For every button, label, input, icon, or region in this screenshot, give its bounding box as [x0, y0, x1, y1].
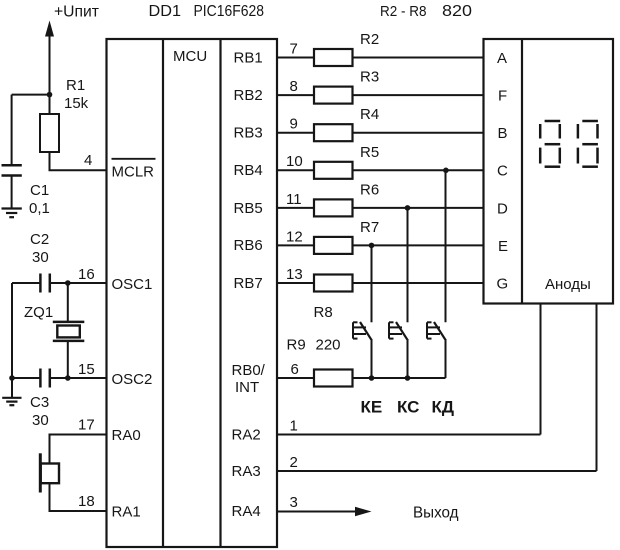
svg-text:6: 6: [291, 361, 299, 378]
wire: left rail C3 end: [12, 377, 40, 379]
svg-text:RA0: RA0: [112, 427, 141, 444]
resistor R8: [314, 275, 353, 292]
wire: C1 to ground: [11, 176, 13, 209]
capacitor C2: [40, 274, 49, 293]
wire pin10 stub: [277, 169, 314, 171]
ground under C1: [2, 209, 22, 218]
svg-text:9: 9: [290, 116, 298, 133]
node junction rail SB1: [369, 375, 375, 381]
svg-text:RB2: RB2: [234, 87, 263, 104]
capacitor C1: [2, 165, 22, 175]
wire: C2 to OSC1 pin: [50, 282, 106, 284]
svg-text:C3: C3: [30, 394, 49, 411]
wire R6 to display D: [353, 207, 484, 209]
wire: left rail C2 end: [12, 282, 40, 284]
svg-text:8: 8: [290, 78, 298, 95]
wire: left rail down to C1: [11, 95, 13, 166]
svg-text:F: F: [498, 88, 507, 105]
wire pin8 stub: [277, 94, 314, 96]
wire: C3 to OSC2 pin: [50, 377, 106, 379]
wire pin7 stub: [277, 57, 314, 59]
svg-text:R4: R4: [360, 106, 379, 123]
svg-text:RB5: RB5: [234, 200, 263, 217]
wire R8 to display G: [353, 282, 484, 284]
switch KE: [353, 322, 372, 378]
wire R3 to display F: [353, 94, 484, 96]
svg-text:PIC16F628: PIC16F628: [194, 3, 265, 20]
ground under C3 rail: [2, 398, 21, 405]
seven segment digit 1: [540, 121, 560, 167]
svg-text:15k: 15k: [64, 95, 89, 112]
svg-text:C: C: [497, 163, 508, 180]
svg-text:RB0/: RB0/: [232, 362, 266, 379]
wire pin9 stub: [277, 132, 314, 134]
svg-text:R9: R9: [287, 337, 306, 354]
svg-text:RA2: RA2: [232, 427, 261, 444]
node junction D row: [405, 205, 411, 211]
wire E row junction down to switch KE: [371, 245, 373, 322]
wire: left rail between C2 and C3: [11, 283, 13, 378]
svg-text:C2: C2: [30, 231, 49, 248]
wire R9 to switch rail: [353, 377, 446, 379]
crystal ZQ1: [53, 283, 85, 378]
wire pin12 stub: [277, 244, 314, 246]
svg-text:C1: C1: [30, 182, 49, 199]
svg-text:D: D: [497, 200, 508, 217]
pin MCLR label with overline: [112, 159, 156, 181]
node: ground junction: [9, 375, 15, 381]
wire R2 to display A: [353, 57, 484, 59]
wire R4 to display B: [353, 132, 484, 134]
node: crystal bottom junction: [65, 375, 71, 381]
wire pin11 stub: [277, 207, 314, 209]
svg-text:12: 12: [286, 228, 303, 245]
svg-text:RB7: RB7: [234, 275, 263, 292]
wire: junction down to R1: [49, 95, 51, 114]
node: R1 top junction: [47, 92, 53, 98]
svg-text:1: 1: [290, 418, 298, 435]
resistor R1: [40, 114, 59, 152]
svg-text:OSC2: OSC2: [112, 371, 153, 388]
svg-text:R7: R7: [360, 219, 379, 236]
svg-text:Выход: Выход: [413, 505, 459, 522]
switch KC: [389, 322, 408, 378]
wire RA3 to display anode 2: [277, 470, 597, 472]
svg-text:+Uпит: +Uпит: [54, 4, 100, 21]
svg-text:RA3: RA3: [232, 463, 261, 480]
wire RA2 to display anode 1: [277, 434, 541, 436]
node junction C row: [443, 168, 449, 174]
resistor R5: [314, 162, 353, 179]
svg-text:17: 17: [78, 417, 95, 434]
node junction E row: [369, 243, 375, 249]
seven segment digit 2: [578, 121, 598, 167]
svg-text:30: 30: [32, 249, 49, 266]
display internal divider: [521, 39, 523, 304]
node: crystal top junction: [65, 280, 71, 286]
svg-text:16: 16: [78, 266, 95, 283]
resistor R4: [314, 124, 353, 141]
svg-text:R5: R5: [360, 144, 379, 161]
svg-text:7: 7: [290, 41, 298, 58]
svg-text:DD1: DD1: [149, 3, 182, 20]
svg-text:R6: R6: [360, 181, 379, 198]
node junction rail SB2: [405, 375, 411, 381]
display indicator box: [484, 39, 614, 304]
svg-text:RB1: RB1: [234, 50, 263, 67]
wire R5 to display C: [353, 169, 484, 171]
svg-text:ZQ1: ZQ1: [24, 304, 53, 321]
wire R7 to display E: [353, 244, 484, 246]
wire C row junction down to switch KD: [445, 170, 447, 322]
svg-text:КС: КС: [397, 397, 419, 416]
svg-text:30: 30: [32, 412, 49, 429]
piezo sounder: [40, 453, 59, 492]
svg-text:КД: КД: [432, 397, 455, 416]
svg-text:OSC1: OSC1: [112, 276, 153, 293]
svg-text:220: 220: [316, 337, 341, 354]
svg-text:B: B: [498, 125, 508, 142]
svg-text:Аноды: Аноды: [545, 276, 591, 293]
MCU internal divider 2: [219, 39, 221, 547]
svg-text:820: 820: [442, 3, 472, 20]
svg-text:11: 11: [286, 191, 302, 208]
wire: junction to ground G2: [11, 378, 13, 398]
svg-text:MCU: MCU: [173, 48, 207, 65]
svg-text:E: E: [498, 238, 508, 255]
wire display bottom right down: [596, 304, 598, 472]
svg-text:R2 - R8: R2 - R8: [380, 3, 427, 20]
svg-text:MCLR: MCLR: [112, 164, 155, 181]
resistor R7: [314, 237, 353, 254]
resistor R3: [314, 87, 353, 104]
svg-text:R1: R1: [66, 77, 85, 94]
svg-text:A: A: [497, 50, 507, 67]
svg-text:18: 18: [78, 493, 95, 510]
wire pin6 stub: [277, 377, 314, 379]
svg-text:3: 3: [290, 494, 298, 511]
svg-text:INT: INT: [235, 379, 259, 396]
wire D row junction down to switch KC: [407, 208, 409, 322]
resistor R9: [314, 370, 353, 387]
wire display bottom left down: [540, 304, 542, 435]
svg-text:RB6: RB6: [234, 237, 263, 254]
svg-text:RB3: RB3: [234, 125, 263, 142]
wire RA0 to piezo: [50, 435, 107, 464]
svg-text:4: 4: [84, 152, 92, 169]
wire RA4 output with arrow: [277, 507, 372, 516]
resistor R2: [314, 49, 353, 66]
svg-text:0,1: 0,1: [29, 200, 50, 217]
svg-text:15: 15: [78, 361, 95, 378]
svg-text:G: G: [497, 276, 509, 293]
svg-text:2: 2: [290, 454, 298, 471]
wire: junction to left rail: [12, 94, 50, 96]
resistor R6: [314, 199, 353, 216]
svg-text:10: 10: [286, 153, 303, 170]
wire piezo to RA1: [50, 483, 107, 511]
svg-text:RA1: RA1: [112, 504, 141, 521]
wire: R1 bottom to MCLR pin: [50, 152, 107, 170]
wire pin13 stub: [277, 282, 314, 284]
IC DD1 MCU box: [107, 39, 278, 547]
capacitor C3: [40, 369, 49, 388]
svg-text:КЕ: КЕ: [361, 397, 383, 416]
MCU internal divider 1: [162, 39, 164, 547]
+Upit arrow: [45, 21, 54, 95]
svg-text:R8: R8: [314, 304, 333, 321]
svg-text:RA4: RA4: [232, 503, 261, 520]
switch KD: [427, 322, 446, 378]
svg-text:R2: R2: [360, 31, 379, 48]
svg-text:R3: R3: [360, 69, 379, 86]
svg-text:RB4: RB4: [234, 162, 263, 179]
svg-text:13: 13: [286, 266, 303, 283]
